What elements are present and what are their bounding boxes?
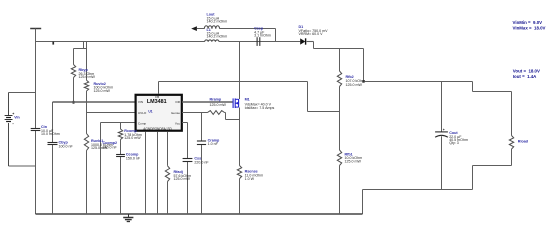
svg-text:IdsMax= 7.5 Amps: IdsMax= 7.5 Amps <box>245 106 275 110</box>
svg-text:3.1 mOhm: 3.1 mOhm <box>254 33 271 37</box>
svg-text:Vcc: Vcc <box>175 121 181 125</box>
svg-text:125.0 mW: 125.0 mW <box>79 75 96 79</box>
svg-text:125.0 mW: 125.0 mW <box>174 177 191 181</box>
svg-text:Rload: Rload <box>518 140 529 144</box>
svg-text:125.0 mW: 125.0 mW <box>94 89 111 93</box>
svg-text:LM3481: LM3481 <box>147 99 167 105</box>
svg-text:125.0 mW: 125.0 mW <box>345 160 362 164</box>
svg-text:VinMax = 18.0V: VinMax = 18.0V <box>513 25 546 30</box>
svg-text:220.0 nF: 220.0 nF <box>194 160 209 164</box>
svg-text:Comp: Comp <box>138 121 147 125</box>
svg-text:+: + <box>443 128 445 132</box>
svg-text:125.0 mW: 125.0 mW <box>124 136 141 140</box>
svg-text:10.0 mOhm: 10.0 mOhm <box>41 132 60 136</box>
svg-text:Vout = 18.0V: Vout = 18.0V <box>513 68 540 73</box>
svg-text:VIN: VIN <box>138 100 143 104</box>
svg-text:Vin: Vin <box>14 116 20 120</box>
svg-text:140.2 mOhm: 140.2 mOhm <box>207 20 228 24</box>
svg-text:100.0 nF: 100.0 nF <box>59 144 74 148</box>
svg-text:DR: DR <box>176 100 181 104</box>
svg-text:1.0 W: 1.0 W <box>245 177 255 181</box>
svg-text:140.2 mOhm: 140.2 mOhm <box>207 34 228 38</box>
svg-text:Ccomp2: Ccomp2 <box>103 141 118 145</box>
svg-text:Rramp: Rramp <box>210 97 222 101</box>
svg-text:U1: U1 <box>148 109 152 113</box>
svg-text:-: - <box>12 121 14 126</box>
svg-text:AGNDPGNDFA/ SD: AGNDPGNDFA/ SD <box>143 127 172 131</box>
svg-text:Qty: 3: Qty: 3 <box>449 141 459 145</box>
svg-text:VinMin = 9.0V: VinMin = 9.0V <box>513 20 543 25</box>
svg-text:Isense: Isense <box>171 111 180 115</box>
svg-text:150.0 nF: 150.0 nF <box>126 156 141 160</box>
svg-text:UVLO: UVLO <box>138 111 147 115</box>
svg-text:Iout = 1.4A: Iout = 1.4A <box>513 74 537 79</box>
svg-text:125.0 mW: 125.0 mW <box>210 103 227 107</box>
svg-text:M1: M1 <box>245 97 250 101</box>
svg-text:1.0 nF: 1.0 nF <box>208 142 219 146</box>
svg-text:VRRM= 60.0 V: VRRM= 60.0 V <box>299 32 324 36</box>
svg-text:240.0 nF: 240.0 nF <box>103 146 118 150</box>
svg-text:125.0 mW: 125.0 mW <box>346 83 363 87</box>
